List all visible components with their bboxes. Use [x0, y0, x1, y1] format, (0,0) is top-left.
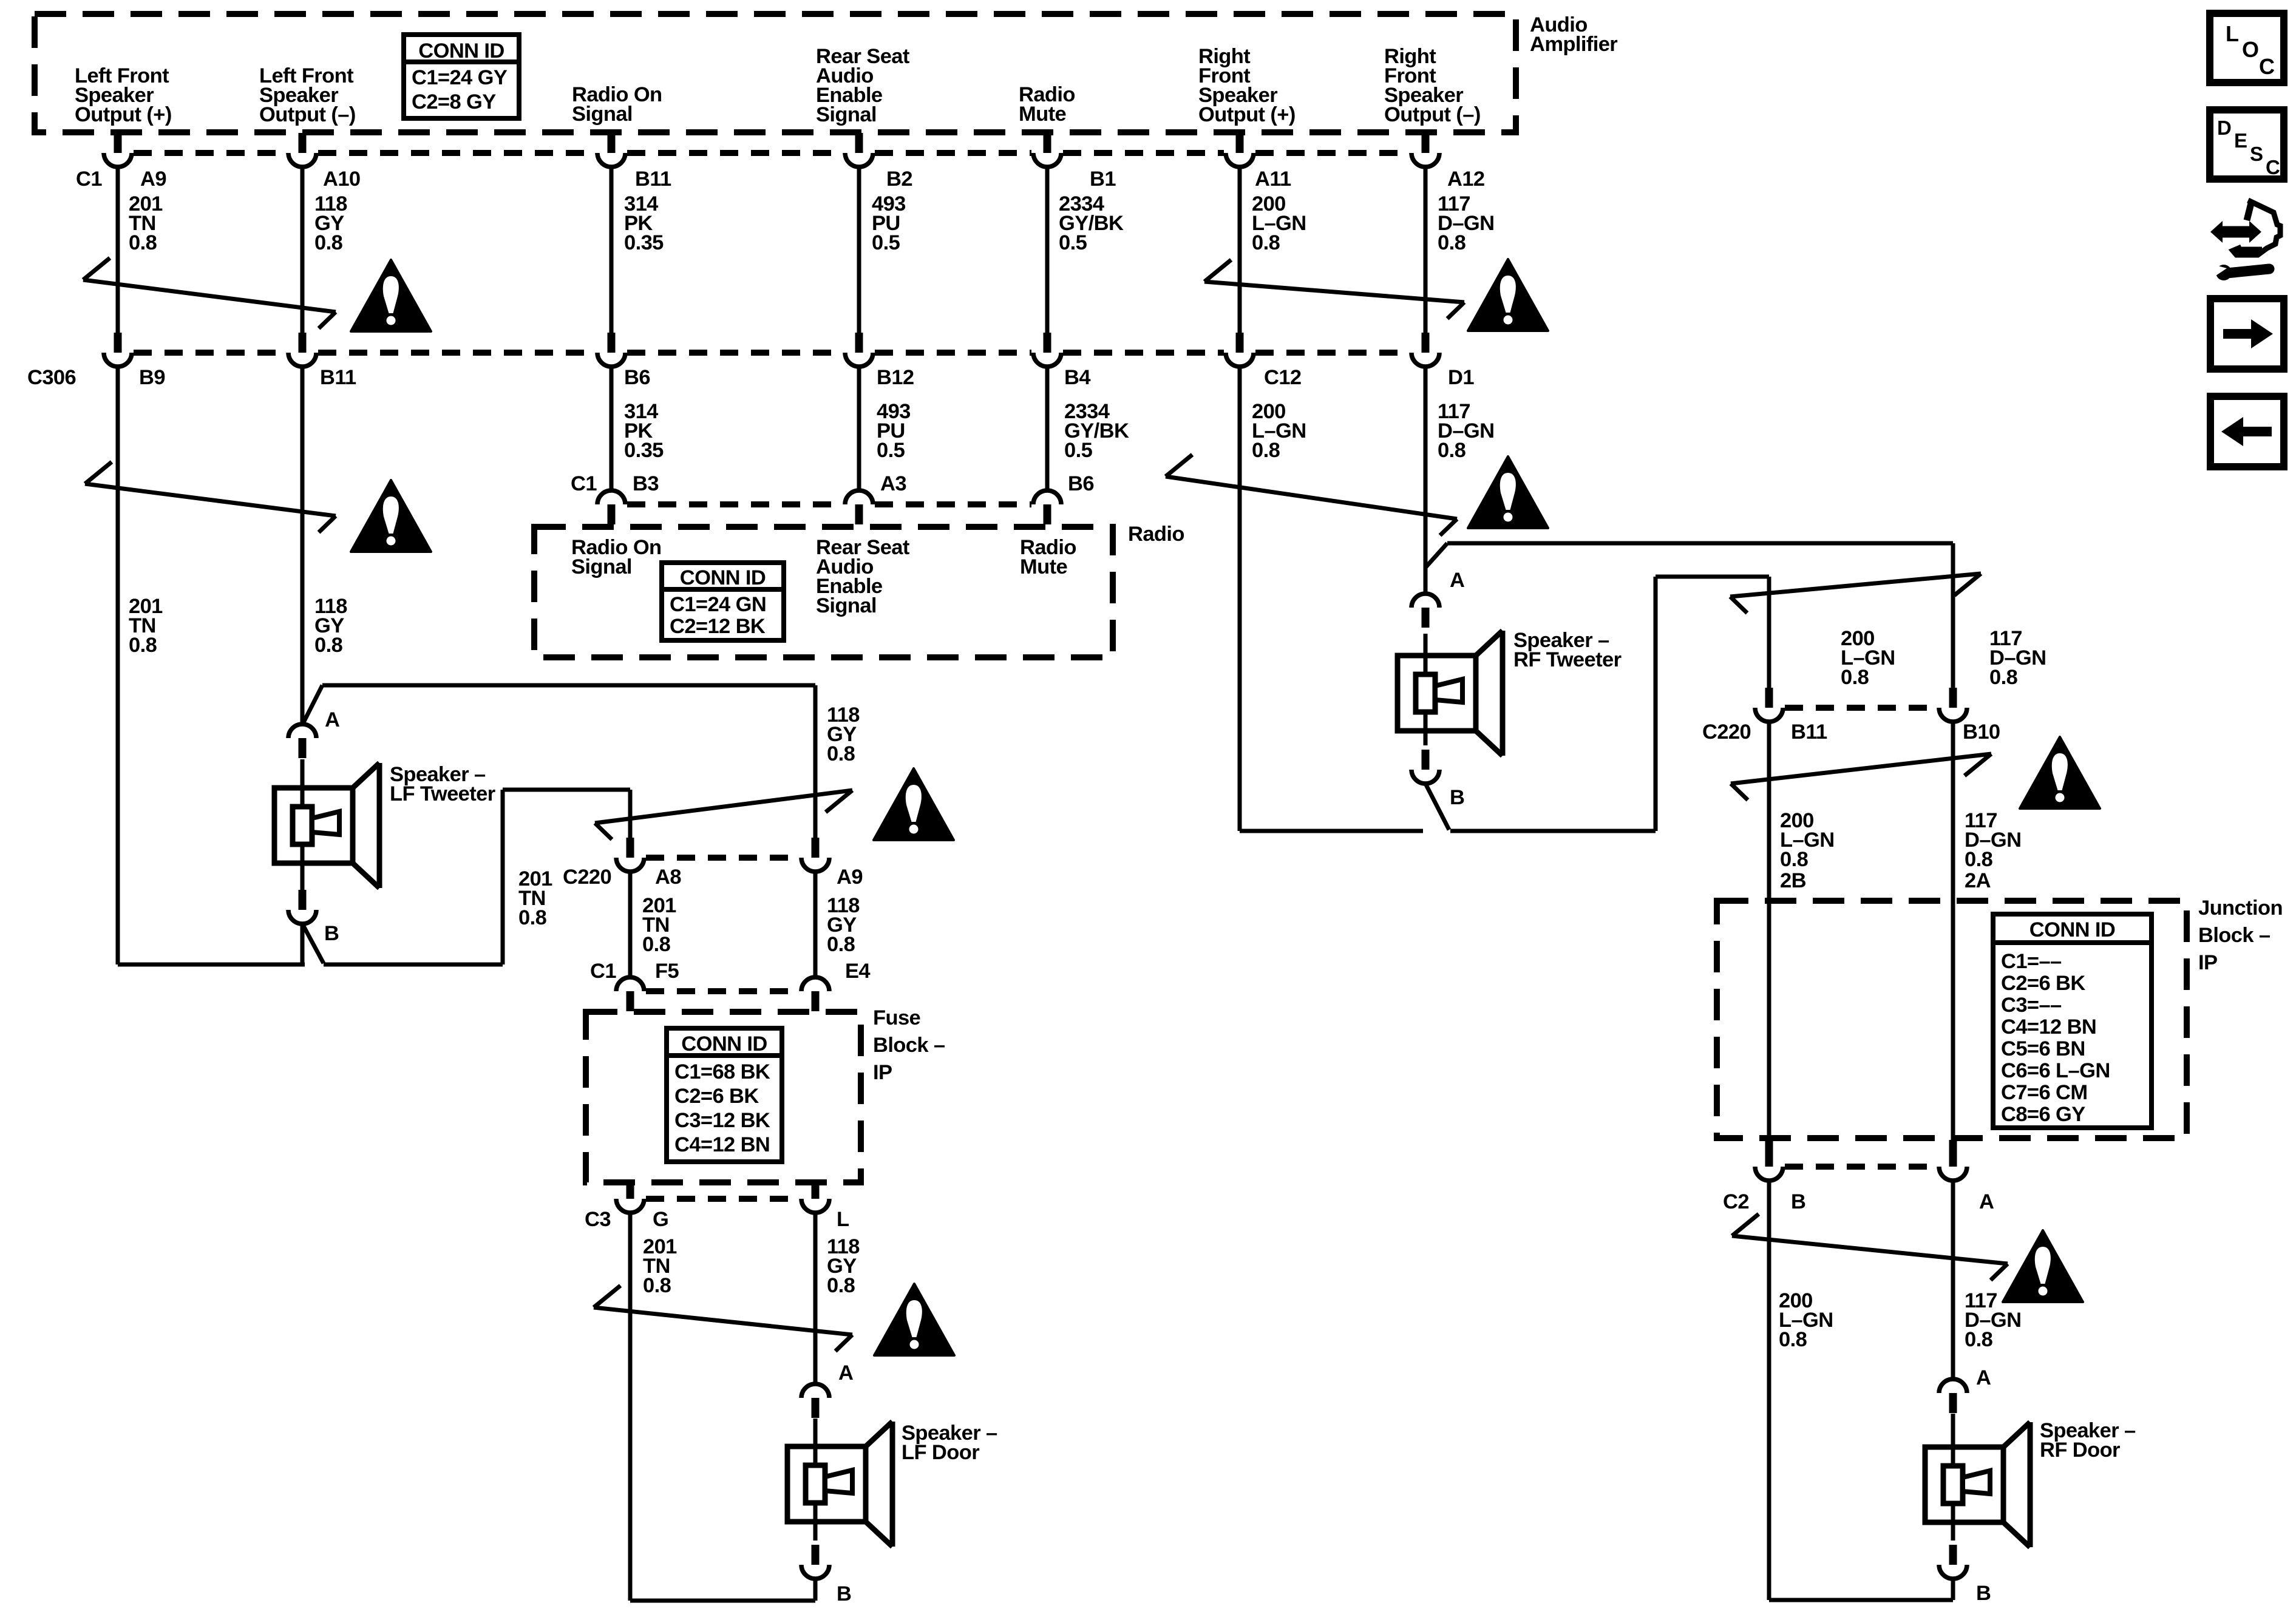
svg-text:C6=6 L–GN: C6=6 L–GN	[2001, 1059, 2110, 1082]
svg-text:C3=––: C3=––	[2001, 994, 2062, 1017]
svg-text:L: L	[2226, 21, 2238, 46]
svg-text:C: C	[2259, 54, 2275, 79]
svg-text:C220: C220	[563, 866, 611, 889]
svg-text:E: E	[2234, 129, 2247, 152]
svg-text:D1: D1	[1448, 366, 1474, 389]
svg-text:B6: B6	[624, 366, 650, 389]
svg-text:C2: C2	[1723, 1190, 1749, 1213]
svg-text:2A: 2A	[1965, 869, 1991, 892]
svg-text:A12: A12	[1447, 168, 1485, 191]
svg-text:CONN ID: CONN ID	[2029, 918, 2115, 941]
svg-text:C4=12 BN: C4=12 BN	[674, 1133, 770, 1156]
svg-text:B11: B11	[1791, 720, 1827, 744]
svg-text:B11: B11	[320, 366, 356, 389]
svg-text:C1=68 BK: C1=68 BK	[674, 1060, 770, 1083]
svg-text:D: D	[2217, 117, 2231, 139]
svg-text:O: O	[2242, 37, 2258, 62]
svg-text:B11: B11	[635, 168, 671, 191]
svg-text:A3: A3	[880, 472, 906, 495]
svg-text:A9: A9	[837, 866, 863, 889]
svg-text:B10: B10	[1963, 720, 2000, 744]
svg-text:A11: A11	[1255, 168, 1291, 191]
svg-text:C1=––: C1=––	[2001, 950, 2062, 973]
svg-text:C2=12 BK: C2=12 BK	[670, 615, 766, 638]
svg-text:2B: 2B	[1780, 869, 1806, 892]
svg-text:E4: E4	[845, 960, 870, 983]
svg-text:C12: C12	[1264, 366, 1302, 389]
svg-text:C2=6 BK: C2=6 BK	[674, 1085, 759, 1108]
svg-text:C220: C220	[1702, 720, 1751, 744]
svg-text:A10: A10	[323, 168, 361, 191]
svg-text:C4=12 BN: C4=12 BN	[2001, 1015, 2096, 1039]
svg-text:C3: C3	[585, 1208, 611, 1231]
svg-text:B: B	[1976, 1582, 1991, 1605]
svg-text:B: B	[1791, 1190, 1805, 1213]
svg-text:B: B	[837, 1582, 851, 1605]
svg-text:CONN ID: CONN ID	[418, 39, 504, 63]
svg-text:B9: B9	[139, 366, 165, 389]
svg-text:C1: C1	[571, 472, 597, 495]
svg-text:C1: C1	[76, 168, 102, 191]
svg-text:A8: A8	[655, 866, 681, 889]
svg-text:Speaker – LF Tweeter: Speaker – LF Tweeter	[390, 763, 495, 805]
svg-text:A9: A9	[140, 168, 166, 191]
svg-text:A: A	[1976, 1366, 1991, 1389]
svg-text:B3: B3	[633, 472, 659, 495]
svg-text:B12: B12	[877, 366, 914, 389]
svg-text:CONN ID: CONN ID	[681, 1032, 767, 1056]
svg-text:A: A	[325, 708, 339, 731]
svg-text:C3=12 BK: C3=12 BK	[674, 1109, 770, 1132]
svg-text:C7=6 CM: C7=6 CM	[2001, 1081, 2087, 1104]
svg-text:B4: B4	[1064, 366, 1090, 389]
svg-text:S: S	[2250, 143, 2263, 165]
svg-text:C2=6 BK: C2=6 BK	[2001, 972, 2085, 995]
svg-text:A: A	[838, 1361, 853, 1385]
svg-text:G: G	[653, 1208, 668, 1231]
svg-text:B: B	[324, 922, 339, 945]
svg-text:314 PK 0.35: 314 PK 0.35	[624, 192, 664, 254]
svg-text:B1: B1	[1090, 168, 1116, 191]
svg-text:C5=6 BN: C5=6 BN	[2001, 1037, 2085, 1060]
svg-text:C1=24 GN: C1=24 GN	[670, 593, 766, 616]
svg-text:Speaker – RF Tweeter: Speaker – RF Tweeter	[1513, 629, 1622, 671]
svg-text:C1: C1	[590, 960, 616, 983]
svg-text:C1=24 GY: C1=24 GY	[412, 66, 508, 89]
svg-text:C: C	[2266, 156, 2280, 178]
svg-text:Radio: Radio	[1128, 523, 1184, 546]
svg-text:314 PK 0.35: 314 PK 0.35	[624, 400, 664, 462]
svg-text:L: L	[837, 1208, 849, 1231]
svg-text:A: A	[1450, 569, 1464, 592]
svg-text:B: B	[1450, 786, 1464, 809]
svg-text:B2: B2	[886, 168, 912, 191]
svg-text:C306: C306	[27, 366, 76, 389]
svg-text:B6: B6	[1068, 472, 1094, 495]
svg-text:A: A	[1979, 1190, 1994, 1213]
svg-text:CONN ID: CONN ID	[680, 566, 766, 589]
svg-text:C8=6 GY: C8=6 GY	[2001, 1103, 2085, 1126]
svg-text:F5: F5	[655, 960, 679, 983]
svg-text:C2=8 GY: C2=8 GY	[412, 90, 496, 114]
